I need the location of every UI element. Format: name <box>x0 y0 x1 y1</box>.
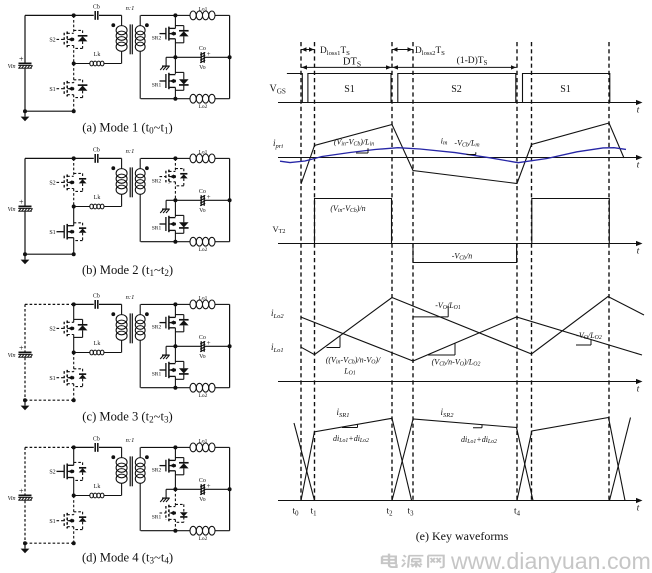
svg-text:Vo: Vo <box>199 497 206 503</box>
svg-text:+: + <box>207 339 211 347</box>
svg-text:Vin: Vin <box>8 64 16 70</box>
svg-text:S1: S1 <box>49 87 55 93</box>
svg-text:www.dianyuan.com: www.dianyuan.com <box>450 548 651 573</box>
svg-text:Lk: Lk <box>94 52 101 58</box>
svg-text:n:1: n:1 <box>126 148 135 155</box>
svg-text:Vo: Vo <box>199 208 206 214</box>
svg-text:S1: S1 <box>49 519 55 525</box>
svg-text:Lo1: Lo1 <box>199 438 208 444</box>
svg-text:SR2: SR2 <box>152 179 162 185</box>
svg-text:SR1: SR1 <box>152 226 162 232</box>
svg-text:Lo2: Lo2 <box>199 104 208 110</box>
svg-text:Lo1: Lo1 <box>199 149 208 155</box>
svg-text:Lo2: Lo2 <box>199 247 208 253</box>
svg-text:S2: S2 <box>49 470 55 476</box>
svg-text:S2: S2 <box>49 181 55 187</box>
svg-text:Vo: Vo <box>199 354 206 360</box>
svg-text:+: + <box>19 198 24 207</box>
svg-text:S1: S1 <box>560 84 571 95</box>
svg-text:Co: Co <box>199 478 206 484</box>
svg-text:S1: S1 <box>344 84 355 95</box>
svg-text:Co: Co <box>199 46 206 52</box>
svg-text:(b) Mode 2 (t1~t2): (b) Mode 2 (t1~t2) <box>82 263 173 278</box>
svg-text:SR1: SR1 <box>152 372 162 378</box>
svg-text:SR1: SR1 <box>152 83 162 89</box>
svg-text:Cb: Cb <box>93 293 100 299</box>
svg-text:(VCb/n-VO)/LO2: (VCb/n-VO)/LO2 <box>432 358 481 368</box>
svg-text:Lo2: Lo2 <box>199 536 208 542</box>
svg-text:S2: S2 <box>49 38 55 44</box>
svg-text:+: + <box>19 344 24 353</box>
svg-text:Vin: Vin <box>8 353 16 359</box>
svg-text:Co: Co <box>199 335 206 341</box>
svg-text:Cb: Cb <box>93 147 100 153</box>
svg-text:SR1: SR1 <box>152 515 162 521</box>
svg-text:Co: Co <box>199 189 206 195</box>
svg-text:S1: S1 <box>49 376 55 382</box>
svg-text:SR2: SR2 <box>152 468 162 474</box>
svg-text:(Vin-VCb)/n: (Vin-VCb)/n <box>330 204 365 214</box>
svg-text:Vin: Vin <box>8 207 16 213</box>
svg-text:Lo2: Lo2 <box>199 393 208 399</box>
svg-text:(e) Key waveforms: (e) Key waveforms <box>416 529 509 543</box>
svg-text:SR2: SR2 <box>152 36 162 42</box>
svg-text:(d) Mode 4 (t3~t4): (d) Mode 4 (t3~t4) <box>82 551 173 566</box>
svg-text:Vo: Vo <box>199 65 206 71</box>
svg-text:Lk: Lk <box>94 195 101 201</box>
svg-text:Vin: Vin <box>8 496 16 502</box>
svg-text:SR2: SR2 <box>152 325 162 331</box>
svg-text:+: + <box>19 487 24 496</box>
svg-text:Cb: Cb <box>93 436 100 442</box>
svg-text:(a) Mode 1 (t0~t1): (a) Mode 1 (t0~t1) <box>82 121 172 136</box>
svg-text:Lk: Lk <box>94 484 101 490</box>
svg-text:+: + <box>207 193 211 201</box>
svg-text:n:1: n:1 <box>126 437 135 444</box>
svg-text:Lo1: Lo1 <box>199 6 208 12</box>
svg-text:Lo1: Lo1 <box>199 295 208 301</box>
svg-text:S2: S2 <box>49 327 55 333</box>
svg-text:+: + <box>207 482 211 490</box>
svg-text:(c) Mode 3 (t2~t3): (c) Mode 3 (t2~t3) <box>82 410 172 425</box>
svg-text:S1: S1 <box>49 230 55 236</box>
svg-text:+: + <box>207 50 211 58</box>
svg-text:Cb: Cb <box>93 4 100 10</box>
svg-text:+: + <box>19 55 24 64</box>
svg-text:S2: S2 <box>451 84 462 95</box>
svg-text:n:1: n:1 <box>126 5 135 12</box>
svg-text:(1-D)TS: (1-D)TS <box>457 55 488 67</box>
svg-text:n:1: n:1 <box>126 294 135 301</box>
svg-text:Lk: Lk <box>94 341 101 347</box>
